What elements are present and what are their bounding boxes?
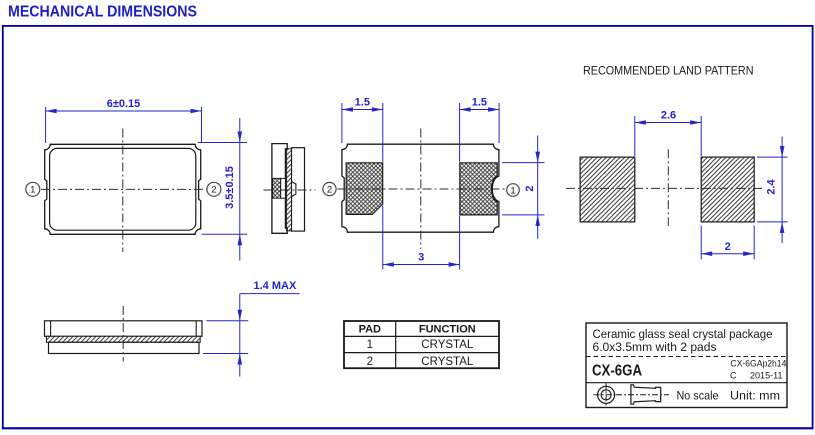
svg-text:2: 2 [327, 184, 332, 195]
doc number CX-6GAp2h14 [730, 358, 786, 369]
svg-text:6.0x3.5mm with 2 pads: 6.0x3.5mm with 2 pads [593, 340, 717, 354]
title block outline [586, 323, 787, 408]
svg-text:CRYSTAL: CRYSTAL [421, 339, 474, 351]
land pattern left pad [580, 157, 635, 222]
svg-text:1.5: 1.5 [472, 97, 487, 109]
svg-text:MECHANICAL DIMENSIONS: MECHANICAL DIMENSIONS [8, 4, 197, 21]
svg-text:CRYSTAL: CRYSTAL [421, 356, 474, 368]
third angle projection symbol [594, 383, 619, 406]
top view horizontal centerline [41, 188, 207, 190]
svg-text:1: 1 [367, 339, 373, 351]
pin 2 balloon [207, 182, 221, 196]
svg-text:6±0.15: 6±0.15 [107, 98, 141, 110]
revision and date [730, 371, 783, 382]
bottom view pad 2 (left, cross-hatched) [346, 163, 383, 215]
svg-text:CX-6GAp2h14: CX-6GAp2h14 [730, 358, 786, 369]
dimension 2.6 (land gap) [635, 110, 701, 156]
svg-text:1: 1 [30, 185, 35, 196]
side view centerline [264, 189, 316, 191]
bottom view pin 2 balloon [323, 182, 336, 195]
svg-text:2.6: 2.6 [661, 110, 676, 122]
scale note [677, 389, 719, 403]
bottom view vertical centerline [420, 129, 422, 250]
bottom view horizontal centerline [338, 188, 508, 190]
dimension 3.5±0.15 [198, 118, 247, 261]
land pattern heading [583, 64, 754, 78]
front view lid [45, 321, 203, 337]
bottom view pad 1 (right, cross-hatched with castellation notch) [460, 163, 497, 215]
svg-text:Ceramic glass seal crystal pac: Ceramic glass seal crystal package [593, 327, 773, 341]
side view lid outline [292, 148, 305, 231]
dimension 1.5 (left pad width) [342, 97, 383, 162]
unit note [730, 389, 780, 403]
svg-text:Unit: mm: Unit: mm [730, 389, 780, 403]
part number CX-6GA [592, 363, 642, 380]
dimension 3 (pad spacing) [383, 206, 460, 270]
bottom view pin 1 balloon [507, 184, 520, 197]
side view castellation bump [292, 182, 296, 197]
svg-text:1.5: 1.5 [355, 97, 370, 109]
bottom view outer package outline [342, 144, 499, 232]
svg-text:2: 2 [367, 356, 373, 368]
dimension 1.5 (right pad width) [460, 97, 500, 162]
svg-text:2: 2 [211, 185, 216, 196]
projection cone symbol [631, 385, 661, 404]
svg-text:3.5±0.15: 3.5±0.15 [224, 166, 236, 209]
svg-text:2: 2 [524, 186, 536, 192]
svg-text:C: C [730, 371, 737, 381]
dimension 2.4 (land height) [757, 137, 788, 244]
pin 1 balloon [26, 182, 40, 196]
front view vertical centerline [122, 306, 124, 362]
land pattern horizontal centerline [566, 187, 764, 189]
land pattern vertical centerline [667, 149, 669, 226]
top view inner cavity rounded rect [50, 148, 196, 230]
svg-text:1: 1 [510, 185, 515, 196]
pad function table [344, 321, 499, 368]
side view cavity recess [281, 178, 286, 198]
side view ceramic body [272, 144, 287, 234]
land pattern right pad [701, 157, 754, 222]
svg-text:FUNCTION: FUNCTION [419, 324, 476, 336]
dimension 2 (pad length) [502, 136, 544, 239]
svg-text:2015-11: 2015-11 [750, 371, 783, 382]
dimension 1.4 MAX [203, 280, 300, 377]
svg-text:3: 3 [418, 252, 424, 264]
svg-text:No scale: No scale [677, 389, 719, 403]
front view glass seal strip [46, 336, 200, 342]
front view ceramic base [49, 342, 200, 353]
title block description text [593, 327, 773, 354]
svg-text:RECOMMENDED LAND PATTERN: RECOMMENDED LAND PATTERN [583, 64, 754, 78]
svg-text:2: 2 [725, 241, 731, 253]
dimension 6±0.15 [46, 98, 202, 143]
top view vertical centerline [122, 129, 124, 253]
svg-text:CX-6GA: CX-6GA [592, 363, 642, 380]
dimension 2 (land width) [701, 226, 754, 260]
side view glass seal strip [287, 149, 292, 231]
svg-text:PAD: PAD [359, 324, 381, 336]
projection cone symbol centerline [616, 394, 669, 396]
top view outer package outline [45, 144, 201, 234]
svg-text:2.4: 2.4 [766, 178, 778, 194]
page title MECHANICAL DIMENSIONS [8, 4, 197, 21]
svg-text:1.4 MAX: 1.4 MAX [254, 280, 297, 292]
side view electrode pad cross-section [273, 178, 281, 198]
